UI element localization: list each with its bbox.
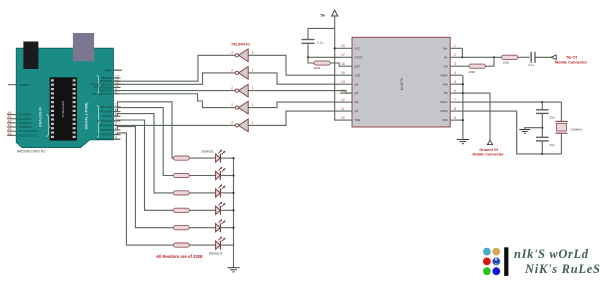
resistor R7 330E (173, 208, 189, 212)
LED D3 (189, 185, 233, 198)
ground symbol at crystal (519, 130, 530, 134)
svg-text:100k: 100k (503, 61, 510, 65)
wire U2D input to Q2 pin12 (248, 102, 340, 108)
RESET pin stub (8, 83, 30, 87)
svg-text:PD4/T0/XCK: PD4/T0/XCK (97, 119, 113, 123)
svg-text:PC2/ADC2: PC2/ADC2 (18, 121, 32, 125)
wire PB4 to U2A output (114, 55, 236, 81)
svg-text:PC5/ADC5/SCL: PC5/ADC5/SCL (18, 133, 38, 137)
logo circle teal (483, 248, 491, 256)
wire R1 to EST pin16 (330, 63, 340, 66)
ground symbol below U3 (457, 140, 469, 144)
svg-text:PC3/ADC3: PC3/ADC3 (18, 125, 32, 129)
svg-text:2: 2 (231, 103, 233, 107)
AREF pin stub (105, 68, 122, 72)
svg-text:2: 2 (454, 53, 456, 57)
svg-text:Mobile Connector: Mobile Connector (473, 152, 505, 156)
svg-text:5: 5 (454, 80, 456, 84)
stub PD0 (114, 138, 121, 140)
LED D4 (189, 202, 233, 215)
junction D3 bus (232, 192, 234, 194)
svg-text:2: 2 (231, 69, 233, 73)
svg-text:IN-: IN- (444, 55, 448, 59)
svg-text:Q4: Q4 (355, 82, 359, 86)
svg-text:All Resitors are of 330E: All Resitors are of 330E (156, 254, 203, 259)
svg-text:1: 1 (252, 121, 254, 125)
ANALOG IN silkscreen (38, 107, 42, 127)
svg-text:RX PD0/RXD: RX PD0/RXD (96, 137, 112, 141)
svg-text:VSS: VSS (442, 118, 448, 122)
junction D2 bus (232, 174, 234, 176)
ARDUINO-UNO R3 caption (17, 150, 45, 154)
wire U2B input to Q4 pin14 (248, 73, 340, 84)
junction GS feedback (493, 56, 495, 58)
junction INH (462, 83, 464, 85)
svg-text:Tip Of: Tip Of (566, 56, 578, 60)
svg-text:ATMEGA328P: ATMEGA328P (61, 100, 65, 117)
logo globe (492, 258, 500, 266)
svg-text:17: 17 (341, 53, 345, 57)
resistor R2 100k (469, 64, 486, 74)
Arduino right pin numbers (115, 74, 119, 139)
svg-text:0.1u: 0.1u (318, 41, 324, 45)
wire midpoint to ground (525, 128, 543, 130)
svg-text:ARDUINO-UNO R3: ARDUINO-UNO R3 (17, 150, 45, 154)
logo text line2 (524, 262, 600, 276)
wire OSC1 to crystal top (462, 101, 561, 103)
resistor R4 330E (173, 156, 189, 160)
wire C1 to ST/GT (308, 43, 340, 57)
svg-text:300k: 300k (314, 66, 321, 70)
junction PD (462, 92, 464, 94)
5V power symbol (321, 10, 338, 18)
svg-text:10: 10 (341, 116, 345, 120)
svg-text:IN+: IN+ (443, 46, 448, 50)
svg-text:PD7/AIN1: PD7/AIN1 (100, 105, 112, 109)
svg-text:PC1/ADC1: PC1/ADC1 (18, 117, 32, 121)
inverter gate U2D (231, 101, 254, 114)
wire PD junction to mobile ground terminal (463, 93, 490, 141)
svg-text:VREF: VREF (440, 73, 448, 77)
wire GS to R2 (462, 65, 469, 67)
resistor R9 330E (173, 243, 189, 247)
svg-text:PC0/ADC0: PC0/ADC0 (18, 113, 32, 117)
junction IN+/IN- (461, 56, 463, 58)
svg-text:OSC2: OSC2 (440, 109, 448, 113)
svg-text:4: 4 (454, 71, 456, 75)
svg-text:nIk'S wOrLd: nIk'S wOrLd (514, 247, 589, 261)
wire R3 to C2 (518, 56, 530, 58)
Arduino digital pin labels PD group (96, 105, 113, 141)
inverter gate U2B (231, 67, 254, 80)
svg-text:Device1: Device1 (202, 150, 214, 154)
wire R2 to IN junction (485, 57, 494, 66)
LED cathode bus wire (233, 158, 235, 267)
svg-text:6: 6 (454, 89, 456, 93)
logo circle orange (492, 248, 500, 256)
Arduino UNO board U1 (16, 48, 113, 147)
svg-text:~PD6/AIN0: ~PD6/AIN0 (99, 110, 113, 114)
svg-text:2: 2 (231, 86, 233, 90)
svg-text:A5: A5 (8, 132, 12, 136)
svg-text:14: 14 (341, 80, 345, 84)
svg-text:~PD3/INT1: ~PD3/INT1 (99, 123, 113, 127)
MT8870 DTMF decoder U3 (340, 37, 462, 127)
svg-text:EST: EST (355, 64, 361, 68)
svg-text:3: 3 (454, 62, 456, 66)
ground symbol LED bus (228, 268, 240, 272)
wire PD6 to LED row 2 (114, 108, 174, 176)
svg-text:Mobile Connector: Mobile Connector (555, 61, 588, 65)
svg-text:18: 18 (341, 44, 345, 48)
junction C4 bottom (541, 153, 543, 155)
svg-text:TOE: TOE (355, 118, 361, 122)
wire 5V rail to VCC and TOE (335, 16, 340, 120)
svg-text:0.1u: 0.1u (529, 63, 535, 67)
junction D5 bus (232, 227, 234, 229)
wire junction down to R1 (308, 57, 314, 63)
svg-text:7: 7 (454, 98, 456, 102)
svg-text:~PD5/T1: ~PD5/T1 (102, 114, 113, 118)
wire PD7 to LED row 1 (114, 102, 174, 158)
terminal Ground Of Mobile Connector (473, 140, 505, 156)
svg-text:1: 1 (252, 103, 254, 107)
wire OSC2 to crystal bottom (462, 111, 561, 154)
capacitor C3 33p (536, 110, 555, 120)
junction D1 bus (232, 157, 234, 159)
junction C1/STGT/R1 (307, 56, 309, 58)
resistor R8 330E (173, 226, 189, 230)
svg-text:PD: PD (444, 91, 448, 95)
svg-text:1: 1 (252, 69, 254, 73)
capacitor C1 0.1u (302, 40, 324, 45)
junction crystal caps midpoint (541, 127, 543, 129)
svg-text:13: 13 (341, 89, 345, 93)
svg-text:11: 11 (341, 107, 345, 111)
wire PB0 to U2D output (114, 94, 236, 108)
logo circle blue (492, 267, 500, 275)
svg-text:1: 1 (252, 51, 254, 55)
wire PD1 to LED row 6 (114, 133, 174, 245)
wire C2 to tip terminal (535, 56, 551, 58)
Arduino analog pin stubs and numbers (7, 111, 16, 136)
svg-text:Q1: Q1 (355, 109, 359, 113)
svg-text:NiK's RuLeS: NiK's RuLeS (524, 262, 600, 276)
svg-text:12: 12 (341, 98, 345, 102)
wire IN- to R3 (462, 56, 501, 58)
74LS04 IC label (231, 41, 250, 46)
crystal X1 3.58MHz (555, 102, 582, 154)
svg-text:PD2/INT0: PD2/INT0 (100, 128, 112, 132)
svg-text:33p: 33p (550, 143, 555, 147)
ATmega328 DIP chip on Arduino (50, 77, 77, 140)
svg-text:3.58MHz: 3.58MHz (570, 127, 583, 131)
svg-text:ANALOG IN: ANALOG IN (38, 107, 42, 127)
DIGITAL (~PWM) silkscreen (84, 103, 88, 130)
svg-text:100k: 100k (469, 70, 476, 74)
svg-text:INH: INH (443, 82, 448, 86)
Arduino analog pin labels (18, 113, 38, 138)
svg-text:PB0/ICP1/CLKO: PB0/ICP1/CLKO (92, 92, 112, 96)
svg-text:5v: 5v (321, 13, 326, 18)
pin group brackets silkscreen (47, 76, 101, 138)
svg-text:1: 1 (252, 86, 254, 90)
inverter gate U2A (231, 49, 254, 62)
svg-text:74LS04 IC: 74LS04 IC (231, 41, 250, 46)
svg-text:STD: STD (355, 73, 361, 77)
svg-text:Q3: Q3 (355, 91, 359, 95)
wire PB1 to U2C output (114, 90, 236, 92)
wire PD2 to LED row 5 (114, 127, 174, 228)
All Resistors note (156, 254, 203, 259)
wire PD4 to LED row 4 (114, 120, 174, 210)
LED D6 (189, 237, 233, 256)
LED D1 (189, 150, 233, 163)
svg-text:PC4/ADC4/SDA: PC4/ADC4/SDA (18, 129, 38, 133)
wire IN+ join IN- (461, 48, 463, 57)
resistor R1 300k (314, 61, 331, 70)
junction OSC1/C3 (541, 101, 543, 103)
wire U2C input to Q3 pin13 (248, 91, 352, 94)
wire PB3 to U2B output (114, 73, 236, 84)
resistor R6 330E (173, 191, 189, 195)
svg-text:33p: 33p (550, 115, 555, 119)
svg-text:AREF: AREF (105, 68, 113, 72)
power connector (gray) on Arduino (73, 33, 94, 61)
svg-text:ST/GT: ST/GT (355, 55, 364, 59)
svg-text:1: 1 (454, 44, 456, 48)
svg-text:RESET: RESET (20, 83, 30, 87)
Arduino right pin stubs (114, 70, 121, 139)
USB connector (black) on Arduino (23, 42, 38, 70)
logo text line1 (514, 247, 589, 261)
LED D5 (189, 219, 233, 232)
logo bar (504, 247, 508, 276)
svg-text:GS: GS (444, 64, 448, 68)
junction VSS (462, 119, 464, 121)
wire PD5 to LED row 3 (114, 114, 174, 193)
svg-text:OSC1: OSC1 (440, 100, 448, 104)
wire U2A input to StD pin15 (248, 55, 340, 75)
junction D4 bus (232, 209, 234, 211)
svg-text:2: 2 (231, 51, 233, 55)
junction 5V/VCC (334, 47, 336, 49)
wire PD3 to U2E output (114, 124, 236, 126)
wire VREF/INH/PD/VSS ground rail (461, 75, 464, 139)
LED D2 (189, 167, 233, 180)
svg-text:Ground Of: Ground Of (479, 148, 498, 152)
svg-text:9: 9 (454, 116, 456, 120)
wire 5V branch to C1 (308, 28, 335, 39)
svg-text:TX PD1/TXD: TX PD1/TXD (97, 133, 113, 137)
svg-text:DIGITAL (~PWM): DIGITAL (~PWM) (84, 103, 88, 130)
logo circle red (483, 258, 491, 266)
svg-text:VCC: VCC (355, 46, 361, 50)
resistor R5 330E (173, 173, 189, 177)
inverter gate U2E (231, 119, 254, 132)
logo circle green (483, 267, 491, 275)
inverter gate U2C (231, 84, 254, 97)
resistor R3 100k (502, 55, 518, 64)
wire C4 to bottom rail (541, 141, 543, 154)
wire top rail to C3 (541, 102, 543, 110)
Arduino digital pin labels PB group (90, 76, 113, 96)
wire C3 to C4 (541, 113, 543, 137)
terminal Tip Of Mobile Connector (551, 55, 587, 65)
svg-text:8: 8 (454, 107, 456, 111)
svg-text:Q2: Q2 (355, 100, 359, 104)
svg-text:16: 16 (341, 62, 345, 66)
svg-text:Device 6: Device 6 (209, 252, 222, 256)
svg-text:2: 2 (231, 121, 233, 125)
wire U2E input to Q1 pin11 (248, 111, 340, 125)
svg-text:15: 15 (341, 71, 345, 75)
capacitor C4 33p (536, 137, 555, 147)
svg-text:M-8870: M-8870 (400, 78, 404, 90)
capacitor C2 0.1u series (529, 52, 536, 67)
